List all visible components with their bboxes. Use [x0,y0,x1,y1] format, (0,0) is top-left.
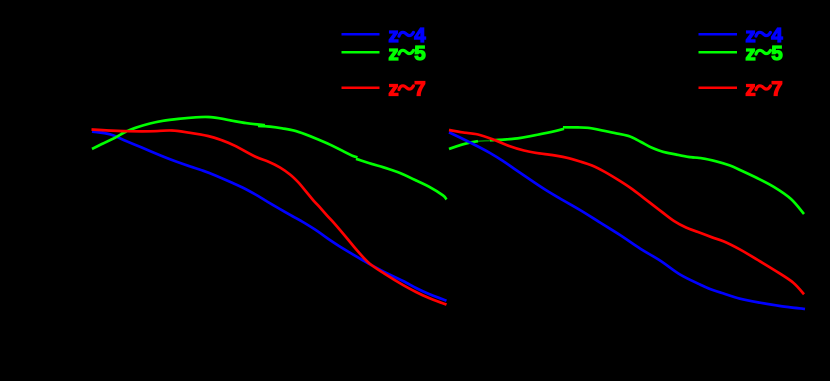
right panel: red z~7 curve [449,130,804,294]
legend label z~4 right [745,24,783,47]
svg-text:5: 5 [414,42,425,65]
left panel: blue z~4 curve [92,132,447,301]
right panel: green z~5 curve (faint joint) [477,139,491,142]
legend label z~4 left [388,24,426,47]
svg-text:z: z [745,78,755,101]
svg-text:7: 7 [771,78,782,101]
legend line right z~4 [699,33,738,36]
right panel: green z~5 curve (segment 2) [490,129,564,141]
left panel: green z~5 curve (segment 3) [356,159,447,200]
legend line right z~5 [699,51,738,54]
legend line left z~7 [342,87,380,90]
svg-text:z: z [388,78,398,101]
legend line left z~5 [342,51,380,54]
legend label z~5 left [388,42,425,65]
right panel: green z~5 curve (segment 1) [449,141,478,149]
right panel: blue z~4 curve [449,132,805,309]
legend label z~7 right [745,78,782,101]
legend line right z~7 [699,87,738,90]
svg-text:5: 5 [771,42,782,65]
left panel: red z~7 curve [92,130,447,305]
left panel: green z~5 curve (segment 2) [258,126,358,157]
svg-text:7: 7 [414,78,425,101]
legend line left z~4 [342,33,380,36]
legend label z~7 left [388,78,425,101]
left panel: green z~5 curve (segment 1) [92,117,265,149]
right panel: green z~5 curve (segment 3) [563,127,804,214]
svg-text:z: z [745,42,755,65]
legend label z~5 right [745,42,782,65]
svg-text:z: z [388,42,398,65]
